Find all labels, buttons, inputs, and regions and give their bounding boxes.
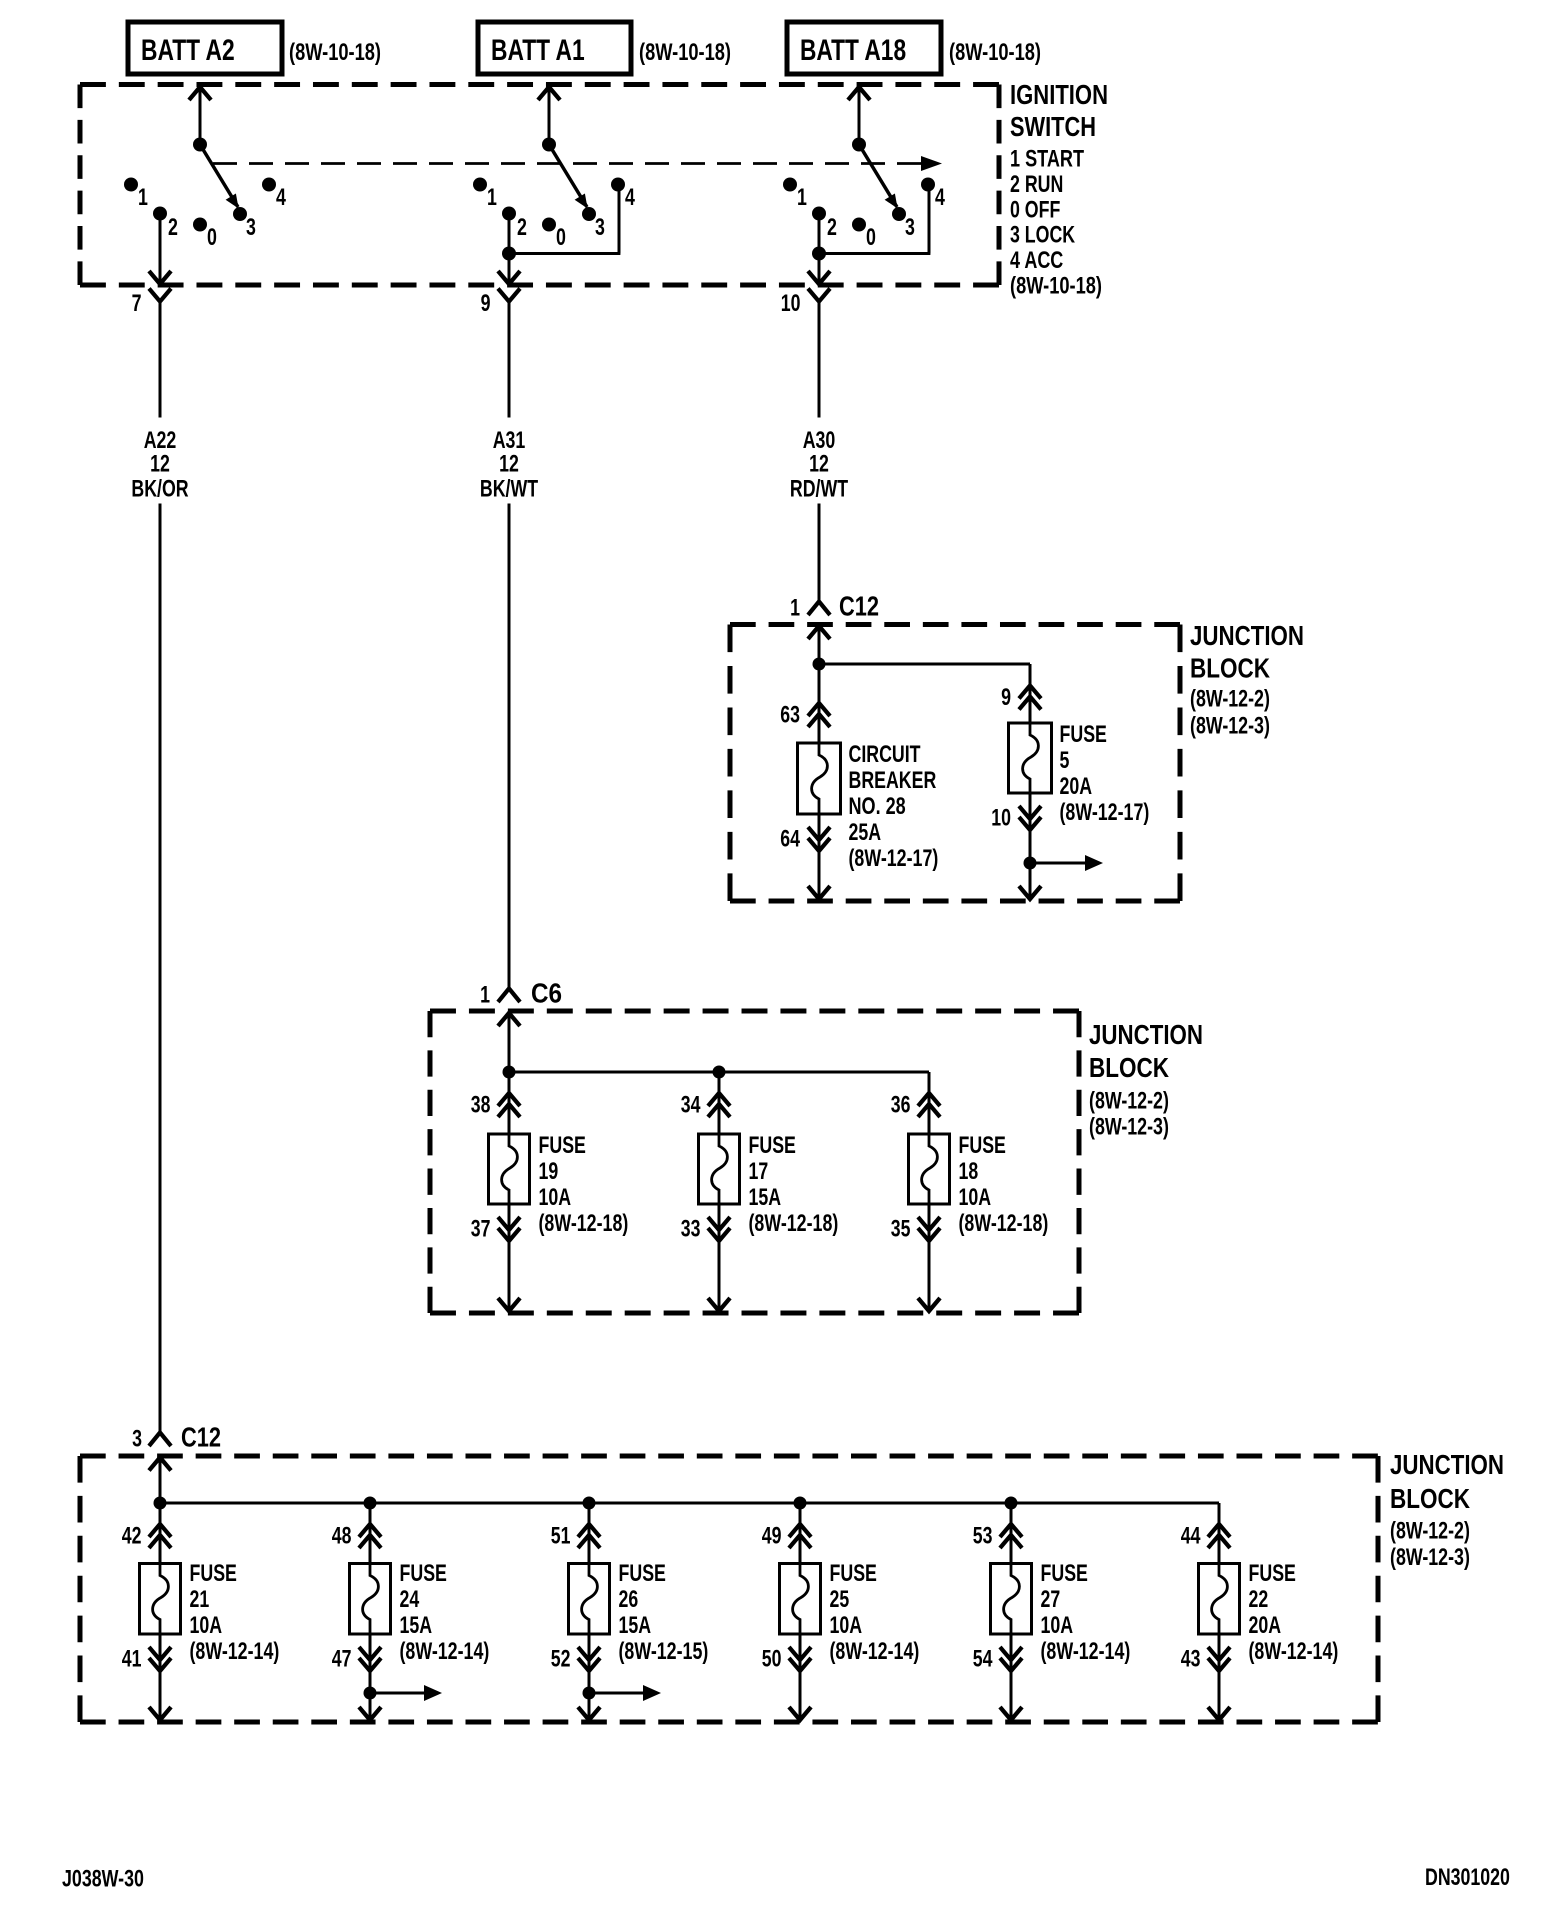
svg-text:(8W-12-3): (8W-12-3) — [1190, 713, 1270, 740]
svg-text:1: 1 — [138, 184, 148, 211]
wire from C12 pin 3 into block — [149, 1458, 171, 1504]
node: bus dot at fuse 17 — [713, 1066, 726, 1079]
terminal 49 — [762, 1503, 811, 1564]
connector box BATT A1 — [478, 22, 631, 74]
junction block (middle) label — [1089, 1019, 1203, 1141]
wire from pole 2 contact 2 to pin 9 — [498, 214, 520, 285]
svg-text:21: 21 — [190, 1586, 210, 1613]
junction block enclosure (middle, dashed) — [430, 1011, 1079, 1313]
svg-text:(8W-12-14): (8W-12-14) — [830, 1638, 920, 1665]
wire circuit breaker output — [808, 814, 830, 899]
switch pole 1: contact 0 — [193, 218, 217, 252]
switch pole 2: wire up to BATT box — [538, 87, 560, 145]
svg-text:(8W-12-2): (8W-12-2) — [1190, 686, 1270, 713]
svg-text:(8W-10-18): (8W-10-18) — [289, 39, 381, 66]
switch pole 3: contact 3 — [892, 207, 915, 241]
svg-text:54: 54 — [973, 1646, 993, 1673]
wire A30 down to C12 — [818, 504, 821, 602]
svg-text:3 LOCK: 3 LOCK — [1010, 222, 1076, 249]
svg-text:(8W-10-18): (8W-10-18) — [949, 39, 1041, 66]
ignition switch enclosure (dashed box) — [80, 85, 999, 286]
svg-text:BLOCK: BLOCK — [1190, 653, 1270, 684]
terminal 53 — [973, 1503, 1022, 1564]
svg-text:5: 5 — [1060, 747, 1070, 774]
wire from C12 pin 1 into block — [808, 626, 830, 664]
switch pole 1: pivot — [193, 138, 207, 152]
wire fuse 22 output — [1208, 1634, 1230, 1720]
terminal 9 — [1001, 684, 1041, 723]
switch pole 2: contact 3 — [582, 207, 605, 241]
wire label A31 12 BK/WT — [480, 427, 538, 503]
svg-text:49: 49 — [762, 1523, 782, 1550]
fuse 24 15A — [350, 1560, 490, 1665]
svg-text:43: 43 — [1181, 1646, 1201, 1673]
svg-text:1 START: 1 START — [1010, 146, 1084, 173]
fuse 17 15A — [699, 1132, 839, 1237]
svg-text:20A: 20A — [1249, 1612, 1282, 1639]
wire fuse 21 output — [149, 1634, 171, 1720]
wire fuse 27 output — [1000, 1634, 1022, 1720]
wire from C6 pin 1 into block — [498, 1013, 520, 1072]
wire label A22 12 BK/OR — [131, 427, 188, 503]
svg-text:10A: 10A — [1041, 1612, 1074, 1639]
svg-text:2: 2 — [517, 214, 527, 241]
svg-text:FUSE: FUSE — [749, 1132, 796, 1159]
switch pole 1: wire up to BATT box — [189, 87, 211, 145]
svg-text:3: 3 — [132, 1426, 142, 1453]
terminal 41 — [122, 1646, 171, 1673]
svg-text:FUSE: FUSE — [1060, 721, 1107, 748]
svg-text:64: 64 — [780, 826, 800, 853]
terminal 51 — [551, 1503, 600, 1564]
svg-text:SWITCH: SWITCH — [1010, 111, 1096, 142]
wire fuse 17 output — [708, 1204, 730, 1311]
svg-text:(8W-12-17): (8W-12-17) — [1060, 799, 1150, 826]
wire fuse 24 output — [359, 1634, 381, 1720]
svg-text:33: 33 — [681, 1216, 701, 1243]
svg-text:FUSE: FUSE — [1041, 1560, 1088, 1587]
svg-text:25: 25 — [830, 1586, 850, 1613]
svg-text:BATT A18: BATT A18 — [800, 34, 906, 67]
node: bus dot x=800 — [794, 1497, 807, 1510]
svg-text:25A: 25A — [849, 819, 882, 846]
svg-text:63: 63 — [780, 702, 800, 729]
node: tap dot below fuse 26 — [583, 1687, 596, 1700]
svg-text:BK/WT: BK/WT — [480, 476, 538, 503]
ignition switch pin 10 connector — [781, 289, 830, 418]
svg-text:48: 48 — [332, 1523, 352, 1550]
junction block enclosure (upper right, dashed) — [730, 625, 1180, 902]
svg-text:4: 4 — [276, 184, 286, 211]
svg-text:41: 41 — [122, 1646, 142, 1673]
svg-text:2 RUN: 2 RUN — [1010, 171, 1063, 198]
svg-text:10A: 10A — [830, 1612, 863, 1639]
svg-text:(8W-10-18): (8W-10-18) — [1010, 273, 1102, 300]
svg-text:12: 12 — [150, 451, 170, 478]
switch pole 1: contact 4 — [262, 178, 286, 212]
svg-text:17: 17 — [749, 1158, 769, 1185]
svg-text:12: 12 — [809, 451, 829, 478]
terminal 35 — [891, 1216, 940, 1243]
switch pole 3: wiper arm to contact 3 — [859, 145, 898, 209]
svg-text:FUSE: FUSE — [1249, 1560, 1296, 1587]
wire fuse 19 output — [498, 1204, 520, 1311]
svg-text:51: 51 — [551, 1523, 571, 1550]
svg-text:(8W-12-14): (8W-12-14) — [1249, 1638, 1339, 1665]
wire from pole 2 contact 4 down to junction — [509, 185, 620, 254]
svg-text:44: 44 — [1181, 1523, 1201, 1550]
svg-text:BREAKER: BREAKER — [849, 767, 937, 794]
svg-text:JUNCTION: JUNCTION — [1190, 620, 1304, 651]
svg-text:0: 0 — [866, 224, 876, 251]
svg-text:(8W-12-15): (8W-12-15) — [619, 1638, 709, 1665]
node: fuse 5 output tap — [1024, 857, 1037, 870]
fuse 22 20A — [1199, 1560, 1339, 1665]
svg-text:12: 12 — [499, 451, 519, 478]
svg-text:36: 36 — [891, 1092, 911, 1119]
svg-text:4 ACC: 4 ACC — [1010, 247, 1063, 274]
label (8W-10-18) for BATT A1 — [639, 39, 731, 66]
svg-text:10A: 10A — [959, 1184, 992, 1211]
svg-text:47: 47 — [332, 1646, 352, 1673]
svg-text:50: 50 — [762, 1646, 782, 1673]
svg-text:BATT A1: BATT A1 — [491, 34, 585, 67]
wire from pole 3 contact 2 to pin 10 — [808, 214, 830, 285]
svg-text:3: 3 — [595, 214, 605, 241]
wire fuse 26 output — [578, 1634, 600, 1720]
svg-text:C6: C6 — [531, 978, 562, 1009]
node: bus dot at fuse 19 — [503, 1066, 516, 1079]
svg-text:0 OFF: 0 OFF — [1010, 196, 1060, 223]
svg-text:4: 4 — [935, 184, 945, 211]
switch pole 1: contact 2 — [153, 207, 178, 242]
svg-text:(8W-12-2): (8W-12-2) — [1390, 1518, 1470, 1545]
svg-text:(8W-12-3): (8W-12-3) — [1390, 1544, 1470, 1571]
switch pole 3: pivot — [852, 138, 866, 152]
connector C6 pin 1 (top) — [480, 978, 562, 1009]
svg-text:10: 10 — [781, 290, 801, 317]
svg-text:22: 22 — [1249, 1586, 1269, 1613]
svg-text:19: 19 — [539, 1158, 559, 1185]
terminal 10 — [991, 805, 1041, 832]
wire A22 down to C12 (bottom) — [159, 504, 162, 1433]
svg-text:52: 52 — [551, 1646, 571, 1673]
terminal 33 — [681, 1216, 730, 1243]
junction block (upper) label — [1190, 620, 1304, 740]
svg-text:C12: C12 — [839, 591, 879, 622]
svg-text:J038W-30: J038W-30 — [62, 1866, 144, 1893]
wire from pole 1 contact 2 to pin 7 — [149, 214, 171, 285]
svg-text:(8W-12-17): (8W-12-17) — [849, 845, 939, 872]
connector box BATT A18 — [787, 22, 941, 74]
svg-text:1: 1 — [790, 595, 800, 622]
label (8W-10-18) for BATT A2 — [289, 39, 381, 66]
wire label A30 12 RD/WT — [790, 427, 848, 503]
svg-text:37: 37 — [471, 1216, 491, 1243]
svg-text:BATT A2: BATT A2 — [141, 34, 235, 67]
svg-text:RD/WT: RD/WT — [790, 476, 848, 503]
svg-text:24: 24 — [400, 1586, 420, 1613]
svg-text:FUSE: FUSE — [619, 1560, 666, 1587]
svg-text:C12: C12 — [181, 1422, 221, 1453]
svg-text:DN301020: DN301020 — [1425, 1864, 1510, 1891]
svg-text:42: 42 — [122, 1523, 142, 1550]
svg-text:1: 1 — [487, 184, 497, 211]
node: bus dot x=589 — [583, 1497, 596, 1510]
ignition switch title text — [1010, 79, 1108, 142]
svg-text:BLOCK: BLOCK — [1390, 1483, 1470, 1514]
svg-text:0: 0 — [556, 224, 566, 251]
wire fuse 18 output — [918, 1204, 940, 1311]
svg-text:26: 26 — [619, 1586, 639, 1613]
terminal 47 — [332, 1646, 381, 1673]
svg-text:34: 34 — [681, 1092, 701, 1119]
connector box BATT A2 — [128, 22, 282, 74]
fuse 21 10A — [140, 1560, 280, 1665]
fuse 5 20A — [1009, 721, 1150, 826]
thin dashed actuation line with arrow — [213, 156, 942, 171]
svg-text:0: 0 — [207, 224, 217, 251]
svg-text:38: 38 — [471, 1092, 491, 1119]
svg-text:JUNCTION: JUNCTION — [1089, 1019, 1203, 1050]
svg-text:NO. 28: NO. 28 — [849, 793, 906, 820]
node: bus dot x=1011 — [1005, 1497, 1018, 1510]
switch pole 2: pivot — [542, 138, 556, 152]
switch pole 2: contact 2 — [502, 207, 527, 242]
svg-text:2: 2 — [168, 214, 178, 241]
terminal 50 — [762, 1646, 811, 1673]
svg-text:FUSE: FUSE — [830, 1560, 877, 1587]
branch arrow below fuse 24 — [370, 1685, 442, 1701]
svg-text:JUNCTION: JUNCTION — [1390, 1449, 1504, 1480]
node: tap dot below fuse 24 — [364, 1687, 377, 1700]
svg-text:3: 3 — [905, 214, 915, 241]
wire to fuse 5 branch — [819, 664, 1030, 686]
footer sheet number J038W-30 — [62, 1866, 144, 1893]
svg-text:18: 18 — [959, 1158, 979, 1185]
connector C12 pin 3 (bottom block) — [132, 1422, 221, 1453]
terminal 52 — [551, 1646, 600, 1673]
bus wire in middle block — [509, 1072, 929, 1093]
svg-text:1: 1 — [797, 184, 807, 211]
svg-text:(8W-12-14): (8W-12-14) — [1041, 1638, 1131, 1665]
switch pole 1: contact 3 — [233, 207, 256, 241]
branch arrow below fuse 26 — [589, 1685, 661, 1701]
svg-text:4: 4 — [625, 184, 635, 211]
svg-text:(8W-12-3): (8W-12-3) — [1089, 1114, 1169, 1141]
svg-text:9: 9 — [481, 290, 491, 317]
switch pole 3: contact 1 — [783, 178, 807, 212]
svg-text:10: 10 — [991, 805, 1011, 832]
svg-text:1: 1 — [480, 982, 490, 1009]
svg-text:10A: 10A — [190, 1612, 223, 1639]
svg-text:(8W-10-18): (8W-10-18) — [639, 39, 731, 66]
terminal 36 — [891, 1072, 940, 1134]
wire fuse 25 output — [789, 1634, 811, 1720]
switch pole 2: contact 4 — [611, 178, 635, 212]
junction block enclosure (bottom, dashed) — [80, 1456, 1378, 1722]
fuse 18 10A — [909, 1132, 1049, 1237]
junction block (bottom) label — [1390, 1449, 1504, 1571]
fuse 26 15A — [569, 1560, 709, 1665]
terminal 38 — [471, 1072, 520, 1134]
label (8W-10-18) for BATT A18 — [949, 39, 1041, 66]
terminal 54 — [973, 1646, 1022, 1673]
svg-text:3: 3 — [246, 214, 256, 241]
fuse 27 10A — [991, 1560, 1131, 1665]
terminal 64 — [780, 826, 830, 853]
fuse 19 10A — [489, 1132, 629, 1237]
terminal 37 — [471, 1216, 520, 1243]
switch pole 1: wiper arm to contact 3 — [200, 145, 239, 209]
svg-text:(8W-12-14): (8W-12-14) — [190, 1638, 280, 1665]
footer drawing number DN301020 — [1425, 1864, 1510, 1891]
wire fuse 5 output — [1019, 793, 1041, 899]
node: bus dot x=160 — [154, 1497, 167, 1510]
svg-text:BLOCK: BLOCK — [1089, 1052, 1169, 1083]
wire A31 down to C6 — [508, 504, 511, 989]
svg-text:35: 35 — [891, 1216, 911, 1243]
fuse 25 10A — [780, 1560, 920, 1665]
svg-text:53: 53 — [973, 1523, 993, 1550]
switch pole 3: contact 2 — [812, 207, 837, 242]
svg-text:27: 27 — [1041, 1586, 1061, 1613]
svg-text:15A: 15A — [749, 1184, 782, 1211]
svg-text:(8W-12-2): (8W-12-2) — [1089, 1088, 1169, 1115]
connector C12 pin 1 (top) — [790, 591, 879, 622]
wire from pole 3 contact 4 down to junction — [819, 185, 930, 254]
svg-text:(8W-12-18): (8W-12-18) — [539, 1210, 629, 1237]
switch pole 2: contact 0 — [542, 218, 566, 252]
junction dot pole 2 — [502, 247, 516, 261]
svg-text:FUSE: FUSE — [959, 1132, 1006, 1159]
terminal 43 — [1181, 1646, 1230, 1673]
svg-text:(8W-12-14): (8W-12-14) — [400, 1638, 490, 1665]
terminal 42 — [122, 1503, 171, 1564]
node: junction dot feed — [813, 658, 826, 671]
branch arrow from fuse 5 output — [1030, 855, 1103, 871]
svg-text:10A: 10A — [539, 1184, 572, 1211]
svg-text:(8W-12-18): (8W-12-18) — [959, 1210, 1049, 1237]
svg-text:15A: 15A — [619, 1612, 652, 1639]
svg-text:FUSE: FUSE — [190, 1560, 237, 1587]
switch pole 3: wire up to BATT box — [848, 87, 870, 145]
svg-text:(8W-12-18): (8W-12-18) — [749, 1210, 839, 1237]
switch pole 3: contact 4 — [921, 178, 945, 212]
switch pole 3: contact 0 — [852, 218, 876, 252]
svg-text:FUSE: FUSE — [400, 1560, 447, 1587]
switch pole 2: contact 1 — [473, 178, 497, 212]
svg-text:IGNITION: IGNITION — [1010, 79, 1108, 110]
svg-text:15A: 15A — [400, 1612, 433, 1639]
terminal 48 — [332, 1503, 381, 1564]
bus wire in bottom block — [160, 1503, 1219, 1524]
junction dot pole 3 — [812, 247, 826, 261]
switch pole 2: wiper arm to contact 3 — [549, 145, 588, 209]
terminal 44 — [1181, 1503, 1230, 1564]
svg-text:9: 9 — [1001, 684, 1011, 711]
svg-text:20A: 20A — [1060, 773, 1093, 800]
switch pole 1: contact 1 — [124, 178, 148, 212]
svg-text:FUSE: FUSE — [539, 1132, 586, 1159]
svg-text:BK/OR: BK/OR — [131, 476, 188, 503]
svg-text:2: 2 — [827, 214, 837, 241]
terminal 63 — [780, 664, 830, 743]
circuit breaker NO. 28 — [798, 741, 939, 872]
node: bus dot x=370 — [364, 1497, 377, 1510]
terminal 34 — [681, 1072, 730, 1134]
svg-text:CIRCUIT: CIRCUIT — [849, 741, 921, 768]
svg-text:7: 7 — [132, 290, 142, 317]
ignition switch pin 9 connector — [481, 289, 520, 418]
ignition switch pin 7 connector — [132, 289, 171, 418]
ignition switch position legend — [1010, 146, 1102, 300]
